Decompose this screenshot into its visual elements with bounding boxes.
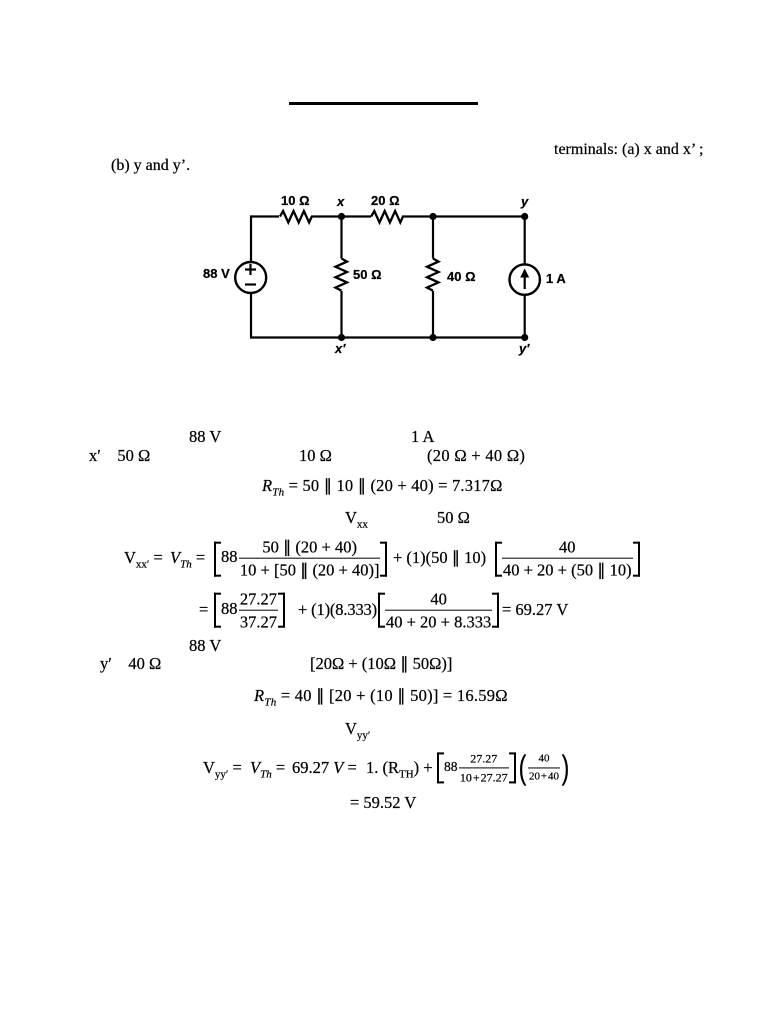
segment [88 smallfrac] <box>437 751 516 782</box>
node label x <box>337 194 344 209</box>
wire: left rail bottom <box>250 293 252 339</box>
segment V_Th = <box>170 548 205 568</box>
text: (b) y and y'. <box>111 157 190 175</box>
arrow inside current source <box>524 272 526 289</box>
top horizontal rule <box>289 102 478 105</box>
node dot mid bottom <box>429 334 436 341</box>
node label y' <box>519 341 529 356</box>
value label 10 ohm <box>281 193 310 208</box>
resistor 40ohm vertical zigzag <box>427 259 439 291</box>
segment 69.27 V = <box>292 758 357 778</box>
text: terminals line <box>554 141 703 159</box>
equation annotations row 1 <box>189 427 221 447</box>
resistor R 10ohm zigzag <box>280 211 312 223</box>
wire: left rail top <box>250 215 252 262</box>
node dot y' <box>521 334 528 341</box>
segment = 69.27 V <box>502 600 568 620</box>
value label 1 A <box>546 271 566 286</box>
segment + (1)(8.333) <box>298 600 377 620</box>
current source 1A circle <box>510 264 540 294</box>
value label 88 V <box>203 266 230 281</box>
wire: 20ohm to node y <box>402 215 525 217</box>
circuit schematic <box>195 188 580 368</box>
segment + (1)(50||10) <box>393 548 486 568</box>
segment [frac 40/...] <box>495 538 640 579</box>
wire: top left segment (left rail to 10ohm) <box>251 215 279 217</box>
segment [frac 40/...] <box>378 589 499 630</box>
wire: 40ohm to bottom rail <box>432 291 434 338</box>
value label 40 ohm <box>447 269 476 284</box>
segment [88 27.27/37.27] <box>214 589 285 630</box>
node dot y <box>521 213 528 220</box>
value label 50 ohm <box>353 267 382 282</box>
node label y <box>521 194 528 209</box>
wire: mid node down to 40ohm <box>432 217 434 259</box>
node dot mid top <box>429 213 436 220</box>
section 2 annotations <box>189 636 221 656</box>
wire: node y down to current source <box>524 217 526 265</box>
Vxx / 50ohm row <box>345 508 368 528</box>
wire: bottom rail <box>251 336 525 338</box>
voltage source 88V circle <box>235 262 266 293</box>
Vyy' label <box>345 719 370 739</box>
resistor 50ohm vertical zigzag <box>336 259 348 291</box>
wire: 10ohm to node x <box>311 215 371 217</box>
resistor 20ohm zigzag <box>371 211 403 223</box>
node dot x <box>338 213 345 220</box>
equation R_Th 2 <box>254 686 508 706</box>
wire: 50ohm to bottom rail <box>340 291 342 338</box>
minus sign inside source <box>245 283 256 285</box>
wire: current source to bottom rail <box>524 295 526 339</box>
segment 1. (R_TH) + <box>366 758 433 778</box>
value label 20 ohm <box>371 193 400 208</box>
segment (smallfrac) <box>517 752 571 781</box>
second line of Vxx' equation : = <box>199 600 208 620</box>
node label x' <box>335 341 345 356</box>
plus sign inside source <box>245 268 256 270</box>
equation R_Th 1 <box>262 476 503 496</box>
segment V_Th = <box>250 758 285 778</box>
wire: node x down to 50ohm <box>340 217 342 259</box>
big equation Vxx' : segment V_xx' = <box>124 548 163 568</box>
segment [88 frac] <box>214 538 387 579</box>
result line <box>350 793 416 813</box>
node dot x' <box>338 334 345 341</box>
big equation Vyy' : segment V_yy' = <box>203 758 242 778</box>
